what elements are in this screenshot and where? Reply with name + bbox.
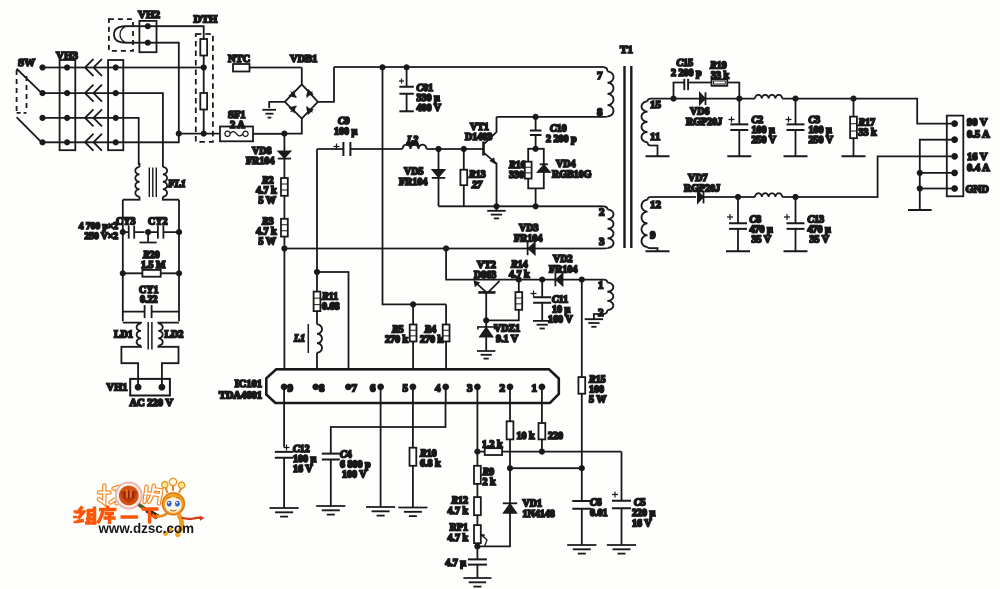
svg-text:DTH: DTH (194, 14, 218, 26)
node L2 / VD5 (436, 147, 440, 151)
resistor R11 0.68 (314, 272, 340, 324)
wire LD to VH1 (121, 346, 178, 388)
wire pin1 down (541, 387, 543, 423)
svg-text:FR104: FR104 (246, 156, 274, 167)
ground R10 (398, 508, 427, 517)
svg-text:15: 15 (650, 99, 662, 111)
ground 4.7u (463, 578, 491, 587)
svg-text:4.7 k: 4.7 k (447, 533, 468, 544)
svg-text:160 V: 160 V (548, 315, 573, 326)
svg-text:SW: SW (18, 57, 35, 69)
svg-text:270 k: 270 k (385, 335, 409, 346)
ground C2 (727, 155, 751, 157)
svg-text:0.5 A: 0.5 A (967, 130, 990, 141)
wire pin9 down (283, 387, 285, 447)
plug chevrons row3 (85, 109, 102, 126)
svg-text:6.8 k: 6.8 k (420, 459, 441, 470)
plug chevrons row2 (85, 85, 102, 102)
node row1 left (40, 65, 44, 69)
wire top rail 310V (334, 66, 604, 68)
ground pin6 (366, 507, 395, 516)
svg-text:220: 220 (548, 431, 563, 442)
node L3 / C3 (793, 96, 797, 100)
svg-text:0.68: 0.68 (322, 302, 340, 313)
resistor R3 4.7k 5W (256, 217, 288, 249)
capacitor CY2 (148, 217, 179, 239)
node C9 return / R11 top (315, 270, 319, 274)
node J VH2/row4/fuse (177, 131, 181, 135)
node VT1 emitter rail (494, 204, 498, 208)
pin 1 (532, 383, 545, 395)
svg-text:0.4 A: 0.4 A (967, 163, 990, 174)
wire 16V rail (782, 156, 954, 197)
svg-text:2: 2 (500, 383, 506, 395)
svg-text:12: 12 (650, 199, 662, 211)
node VD6 / C2 (737, 96, 741, 100)
resistor R4 270k (420, 304, 450, 369)
svg-text:VD3: VD3 (519, 223, 538, 234)
svg-text:RGP20J: RGP20J (686, 117, 722, 128)
line filter FL1 (123, 163, 186, 200)
svg-text:33 k: 33 k (859, 128, 878, 139)
resistor R17 33k (850, 99, 877, 156)
transformer T1 core (620, 44, 633, 248)
ground VDZ1 (477, 351, 495, 359)
svg-text:5 W: 5 W (589, 395, 606, 406)
wire bridge right to top rail (318, 67, 334, 102)
wire row3 (43, 118, 139, 165)
plug chevrons row1 (85, 59, 102, 76)
capacitor C3 100u 250V (786, 99, 834, 156)
resistor 1.2k (477, 440, 621, 456)
svg-text:11: 11 (650, 131, 660, 143)
svg-text:RP1: RP1 (450, 523, 468, 534)
svg-text:16 V: 16 V (293, 464, 313, 475)
node CY3/CY2 mid (146, 230, 150, 234)
node C10 / R16 VD4 (533, 147, 537, 151)
wire node to bridge bottom (284, 119, 301, 134)
svg-text:FL1: FL1 (167, 179, 186, 190)
inductor LD1 (114, 323, 141, 346)
svg-text:3: 3 (467, 383, 473, 395)
ground bridge (262, 110, 276, 118)
capacitor C13 470u 35V (784, 197, 831, 251)
DTH resistor lower (200, 68, 207, 134)
svg-text:270 k: 270 k (420, 335, 444, 346)
transformer T1 secondary winding 12-9 (642, 197, 697, 251)
pin 6 (370, 383, 383, 395)
capacitor C6 0.01 (572, 468, 607, 544)
svg-text:VH2: VH2 (138, 9, 161, 21)
node L4 / C13 (793, 195, 797, 199)
node R17 top (851, 96, 855, 100)
svg-text:VD6: VD6 (690, 107, 709, 118)
node 220 / 1.2k wire (540, 449, 544, 453)
svg-text:16 V: 16 V (967, 152, 988, 163)
wire feedback rail (284, 248, 602, 250)
resistor R14 4.7k (486, 260, 530, 321)
wire row4 (43, 134, 179, 143)
inductor L1 (293, 324, 322, 369)
transformer T1 aux winding 1-2 (594, 280, 613, 320)
node row3 left (40, 116, 44, 120)
pin 9 (282, 383, 294, 395)
svg-text:C6: C6 (590, 498, 602, 509)
wire rail to VT2 emitter row (446, 249, 604, 280)
wire winding8 to VT1 collector (497, 116, 605, 118)
resistor R2 4.7k 5W (256, 176, 288, 219)
capacitor C15 2200p (671, 58, 712, 99)
svg-text:220 µ: 220 µ (632, 508, 656, 519)
svg-text:VD2: VD2 (553, 254, 572, 265)
svg-text:VD4: VD4 (556, 159, 575, 170)
diode VD2 FR104 (549, 254, 577, 286)
transformer T1 winding 2-3 (599, 206, 614, 248)
transformer T1 secondary winding 15-11 (642, 99, 673, 156)
svg-text:D863: D863 (474, 270, 496, 281)
bridge rectifier VDB1 (285, 54, 318, 119)
node R5 top (411, 302, 415, 306)
diode VD4 RGB10G (536, 149, 592, 207)
svg-text:RGB10G: RGB10G (552, 170, 592, 181)
inductor L3 (755, 95, 782, 99)
wire gnd bus (920, 140, 955, 210)
capacitor C10 2200p (530, 117, 577, 149)
svg-text:FR104: FR104 (399, 177, 427, 188)
capacitor C4 6800p 100V (322, 449, 371, 506)
wire VH2 top to DTH (148, 26, 204, 39)
node VD7 / C8 (736, 195, 740, 199)
svg-text:R12: R12 (450, 496, 468, 507)
diode VD6 RGP20J (674, 92, 756, 128)
connector VH1 (107, 379, 170, 396)
svg-text:GND: GND (966, 185, 990, 196)
resistor R16 330 (508, 149, 536, 189)
node L2 / R13 (462, 147, 466, 151)
connector VH2 (138, 9, 161, 52)
svg-text:5 W: 5 W (259, 237, 276, 248)
resistor R15 100 5W (578, 280, 606, 469)
capacitor 4.7u (445, 546, 487, 577)
pin 8 (313, 383, 325, 395)
resistor R12 4.7k (447, 496, 480, 526)
capacitor C8 470u 35V (727, 197, 773, 251)
wire pin5 down (412, 387, 414, 448)
svg-text:35 V: 35 V (752, 235, 772, 246)
ground VT1 emitter (487, 206, 506, 218)
svg-text:10 k: 10 k (517, 431, 536, 442)
plug chevrons row4 (85, 134, 102, 151)
svg-text:16 V: 16 V (632, 519, 652, 530)
svg-text:C10: C10 (550, 124, 567, 135)
ground C6 (567, 545, 596, 554)
degaussing coil (dashed) (109, 19, 148, 51)
svg-text:VD7: VD7 (688, 173, 707, 184)
resistor 10k (507, 421, 535, 468)
svg-text:2: 2 (598, 307, 604, 319)
diode VD5 FR104 (399, 149, 445, 206)
wire bridge left to ground (269, 102, 285, 108)
svg-text:5 W: 5 W (259, 196, 276, 207)
resistor R13 27 (460, 149, 485, 206)
wire filter right side (178, 200, 180, 322)
node C11 top (540, 277, 544, 281)
svg-text:6: 6 (370, 383, 376, 395)
svg-text:27: 27 (471, 180, 483, 191)
ground output (908, 209, 932, 211)
node rail / C01 (404, 65, 408, 69)
diode VD1 1N4148 (477, 468, 554, 546)
inductor L2 (403, 135, 484, 149)
node fuse/VD8/bridge (282, 131, 286, 135)
pin 4 (435, 383, 448, 395)
transformer T1 primary winding 7-8 (597, 67, 614, 118)
svg-text:1N4148: 1N4148 (523, 509, 555, 520)
watermark magnifier lens (116, 483, 158, 518)
node gnd pin4 (918, 171, 922, 175)
node winding15 / snubber (671, 96, 675, 100)
wire pin4 stub (920, 172, 955, 174)
capacitor C9 100u (317, 116, 403, 156)
svg-text:400 V: 400 V (417, 103, 442, 114)
wire pin6 down (380, 387, 382, 507)
diode VD8 FR104 (246, 134, 291, 178)
svg-text:0.01: 0.01 (590, 508, 608, 519)
svg-text:VD5: VD5 (404, 167, 423, 178)
wire row2 (43, 93, 163, 163)
connector VH3 (56, 50, 79, 150)
node DTH mid / row1 (202, 65, 206, 69)
resistor R10 6.8k (410, 448, 442, 507)
svg-text:T1: T1 (620, 44, 633, 56)
wire pin2 down (509, 387, 511, 421)
ground winding 9 (646, 250, 670, 252)
svg-text:LD1: LD1 (114, 330, 133, 341)
diode VD3 FR104 (514, 223, 542, 255)
capacitor CY1 (123, 285, 179, 318)
svg-text:4.7 µ: 4.7 µ (445, 558, 466, 569)
resistor R19 33k (709, 61, 739, 99)
svg-text:2 200 p: 2 200 p (671, 68, 702, 79)
node pin3 / 1.2k (475, 449, 479, 453)
svg-text:90 V: 90 V (967, 118, 988, 129)
wire J to fuse (179, 133, 220, 135)
ground winding 11 (646, 155, 670, 157)
pin 2 (500, 383, 513, 395)
svg-text:5: 5 (403, 383, 409, 395)
svg-text:35 V: 35 V (810, 235, 830, 246)
capacitor C2 100u 250V (729, 99, 777, 156)
label 90V 0.5A (967, 118, 990, 141)
wire filter left side (122, 200, 124, 322)
capacitor CY3 (116, 217, 145, 239)
resistor R5 270k (385, 304, 417, 369)
svg-text:2 200 p: 2 200 p (546, 134, 577, 145)
svg-text:1: 1 (532, 383, 538, 395)
wire VH2 bottom to junction (148, 43, 179, 134)
svg-text:D1403: D1403 (465, 132, 492, 143)
wire pin2 to R15 bottom (510, 467, 582, 469)
diode VD7 RGP20J (684, 173, 755, 203)
svg-text:TDA4601: TDA4601 (219, 391, 262, 402)
DTH resistor upper (200, 39, 207, 68)
potentiometer RP1 4.7k (447, 523, 487, 547)
node CY2 row right (177, 230, 181, 234)
svg-text:7: 7 (352, 383, 358, 395)
node row4 left (40, 140, 44, 144)
pin 3 (467, 383, 480, 395)
watermark text weiku yixia (73, 506, 159, 525)
ground R17 (842, 155, 866, 157)
pin 5 (403, 383, 416, 395)
node gnd pin5 (918, 186, 922, 190)
svg-text:2 k: 2 k (483, 477, 497, 488)
ground C13 (784, 250, 808, 252)
zener VDZ1 9.1V (478, 320, 520, 350)
transistor VT2 D863 (474, 260, 500, 320)
transistor VT1 D1403 (465, 117, 497, 206)
inductor L4 (755, 193, 782, 197)
node R20 left (121, 271, 125, 275)
wire pin7 branch (317, 272, 349, 369)
wire emitter rail (439, 205, 603, 207)
output connector (947, 116, 964, 197)
ground C4 (316, 506, 345, 515)
node rail / startup branch (380, 65, 384, 69)
svg-text:VD1: VD1 (523, 499, 542, 510)
svg-text:R13: R13 (468, 170, 486, 181)
thermistor DTH (dashed box) (194, 14, 218, 142)
node R14 top (517, 277, 521, 281)
svg-text:9: 9 (650, 230, 656, 242)
ground C5 (607, 545, 636, 554)
svg-text:100 µ: 100 µ (334, 127, 358, 138)
svg-text:VDB1: VDB1 (290, 54, 317, 65)
wire row1 (43, 67, 204, 69)
svg-text:250 V: 250 V (752, 135, 777, 146)
node R20 right (177, 271, 181, 275)
wire pin9 up (283, 249, 285, 370)
connector VH3 mate (108, 60, 123, 150)
node R16VD4 bottom rail (533, 204, 537, 208)
inductor LD2 (148, 322, 183, 350)
svg-text:2: 2 (599, 207, 605, 219)
capacitor C5 220u 16V (612, 452, 656, 545)
label 16V 0.4A (967, 152, 990, 174)
svg-text:330: 330 (509, 170, 524, 181)
wire pin4 to C4 (445, 387, 447, 403)
svg-text:IC101: IC101 (235, 379, 262, 390)
svg-text:VH1: VH1 (107, 383, 128, 394)
capacitor C11 10u 160V (531, 280, 574, 326)
ground C12 (270, 508, 299, 517)
switch SW (17, 57, 42, 143)
svg-text:www.dzsc.com: www.dzsc.com (98, 521, 195, 536)
svg-text:4.7 k: 4.7 k (447, 506, 468, 517)
capacitor C12 100u 16V (275, 444, 317, 508)
svg-text:C5: C5 (634, 498, 646, 509)
node DTH bottom (202, 131, 206, 135)
ground C3 (784, 155, 808, 157)
node RP1 / VD1 / 4.7u (475, 544, 479, 548)
pin 7 (346, 383, 358, 395)
node CY3 row left (121, 230, 125, 234)
resistor 220 (539, 423, 564, 452)
node VT2 base bottom (484, 318, 488, 322)
fuse SF1 2A (220, 110, 284, 141)
svg-text:RGP20J: RGP20J (684, 184, 720, 195)
wire pin5 stub (920, 188, 955, 190)
svg-text:250 V: 250 V (809, 135, 834, 146)
op-amp IC101 TDA4601 body (219, 369, 559, 403)
node rail / VT2 branch (444, 246, 448, 250)
ground mid CY (140, 232, 157, 242)
wire 90V rail (782, 99, 954, 124)
resistor R20 (123, 250, 179, 277)
wire pin3 down (476, 387, 478, 452)
ground aux winding (585, 319, 603, 327)
svg-text:7: 7 (597, 70, 603, 82)
ground C11 (533, 321, 551, 329)
capacitor C01 330u 400V (399, 67, 442, 114)
watermark mascot (156, 478, 205, 537)
watermark char zhao (found) (99, 486, 123, 504)
thermistor NTC (228, 54, 302, 72)
svg-text:9.1 V: 9.1 V (496, 334, 519, 345)
svg-text:4: 4 (435, 383, 441, 395)
svg-text:CY3: CY3 (116, 217, 135, 228)
svg-text:250 V×2: 250 V×2 (85, 232, 119, 242)
node C10 top (533, 115, 537, 119)
svg-text:3: 3 (599, 236, 605, 248)
wire C9 left down to pin7 node (316, 149, 318, 272)
node aux/R15 (580, 277, 584, 281)
svg-text:9: 9 (288, 383, 294, 395)
wire startup vertical (383, 67, 447, 304)
node R15 bottom (580, 466, 584, 470)
svg-text:100 V: 100 V (342, 470, 367, 481)
svg-text:0.22: 0.22 (140, 295, 158, 306)
svg-text:L1: L1 (293, 334, 305, 345)
svg-text:VDZ1: VDZ1 (494, 324, 520, 335)
svg-text:8: 8 (319, 383, 325, 395)
node pin2 / R15 wire (508, 466, 512, 470)
value label 4700p x2 (79, 222, 118, 242)
ground C8 (726, 250, 750, 252)
svg-text:LD2: LD2 (165, 330, 184, 341)
node row2 left (40, 91, 44, 95)
svg-text:4 700 p×2: 4 700 p×2 (79, 222, 118, 232)
resistor R9 2k (474, 452, 496, 498)
svg-text:C9: C9 (338, 116, 350, 127)
watermark char pian (chip) (144, 485, 161, 504)
node R3 / feedback rail (282, 246, 286, 250)
svg-text:AC 220 V: AC 220 V (130, 398, 174, 409)
svg-text:1: 1 (598, 280, 604, 292)
svg-text:2 A: 2 A (230, 120, 245, 131)
